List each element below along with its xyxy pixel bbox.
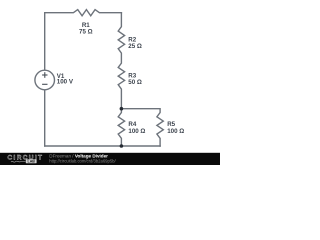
svg-text:75 Ω: 75 Ω <box>79 28 93 35</box>
svg-text:CIRCUIT: CIRCUIT <box>8 155 44 162</box>
svg-text:100 Ω: 100 Ω <box>167 128 184 135</box>
svg-text:http://circuitlab.com/crd/3b2a: http://circuitlab.com/crd/3b2a69p5b/ <box>49 159 116 164</box>
svg-text:100 V: 100 V <box>57 79 74 86</box>
svg-text:LAB: LAB <box>28 160 36 164</box>
svg-text:50 Ω: 50 Ω <box>128 79 142 86</box>
svg-text:100 Ω: 100 Ω <box>128 128 145 135</box>
svg-text:25 Ω: 25 Ω <box>128 43 142 50</box>
